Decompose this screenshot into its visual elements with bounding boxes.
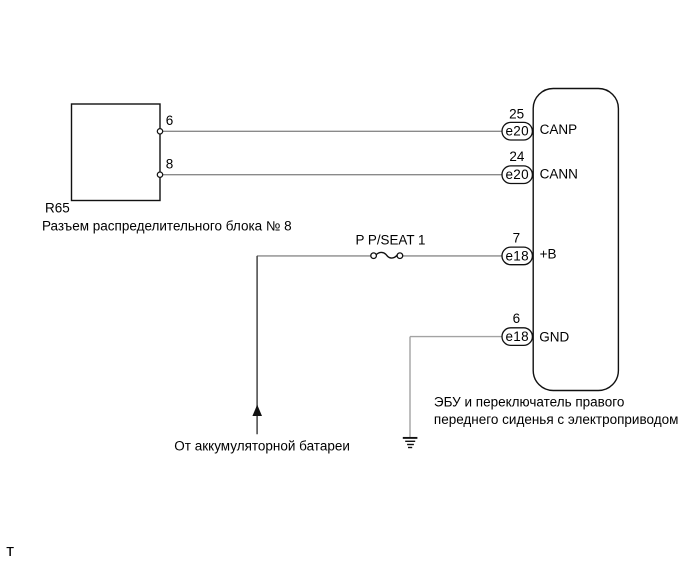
- svg-text:переднего сиденья с электропри: переднего сиденья с электроприводом: [434, 412, 678, 427]
- svg-text:e18: e18: [505, 248, 528, 263]
- svg-text:R65: R65: [45, 201, 70, 216]
- svg-text:P P/SEAT 1: P P/SEAT 1: [356, 233, 426, 248]
- svg-text:8: 8: [166, 157, 174, 172]
- svg-text:CANN: CANN: [540, 167, 578, 182]
- svg-text:6: 6: [166, 113, 174, 128]
- svg-text:e20: e20: [505, 124, 528, 139]
- svg-text:24: 24: [509, 149, 525, 164]
- svg-text:e20: e20: [505, 167, 528, 182]
- svg-text:т: т: [6, 541, 14, 560]
- svg-text:ЭБУ и переключатель правого: ЭБУ и переключатель правого: [434, 395, 624, 410]
- svg-text:25: 25: [509, 106, 524, 121]
- svg-text:GND: GND: [539, 329, 569, 344]
- svg-text:От аккумуляторной батареи: От аккумуляторной батареи: [174, 438, 350, 453]
- svg-text:6: 6: [513, 311, 521, 326]
- svg-text:e18: e18: [505, 329, 528, 344]
- svg-text:CANP: CANP: [540, 122, 578, 137]
- svg-text:7: 7: [513, 230, 521, 245]
- svg-text:Разъем распределительного блок: Разъем распределительного блока № 8: [42, 218, 292, 233]
- svg-text:+B: +B: [540, 246, 557, 261]
